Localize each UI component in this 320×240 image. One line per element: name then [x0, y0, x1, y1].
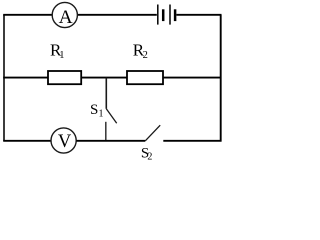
wire bottom left segment [3, 140, 51, 142]
wire R2 to right vertical [163, 77, 221, 79]
battery cell1 long plate [157, 5, 159, 25]
svg-text:S: S [90, 102, 98, 118]
wire top left segment [3, 14, 52, 16]
wire right vertical [220, 15, 222, 142]
svg-text:A: A [59, 7, 73, 28]
wire junction down to S1 hinge [105, 78, 107, 109]
resistor R1 [48, 71, 81, 84]
svg-text:2: 2 [147, 152, 152, 162]
switch S2 blade [145, 125, 160, 141]
battery cell1 short plate [162, 9, 165, 21]
battery cell2 short plate [174, 9, 177, 21]
svg-text:V: V [58, 132, 72, 152]
switch S1 lower stub [105, 122, 107, 141]
wire battery to top right corner [176, 14, 221, 16]
svg-text:1: 1 [59, 50, 64, 61]
battery cell2 long plate [169, 5, 171, 25]
resistor R2 [127, 71, 163, 84]
wire middle left segment [3, 77, 48, 79]
wire ammeter to battery [78, 14, 157, 16]
wire voltmeter to S2 hinge [77, 140, 146, 142]
wire left vertical [3, 15, 5, 141]
svg-text:1: 1 [99, 108, 104, 119]
wire S2 to bottom right corner [163, 140, 221, 142]
wire between R1 and R2 [81, 77, 127, 79]
switch S1 blade [106, 109, 116, 123]
voltmeter V [51, 128, 76, 153]
svg-text:2: 2 [143, 50, 148, 61]
ammeter A [52, 2, 77, 27]
